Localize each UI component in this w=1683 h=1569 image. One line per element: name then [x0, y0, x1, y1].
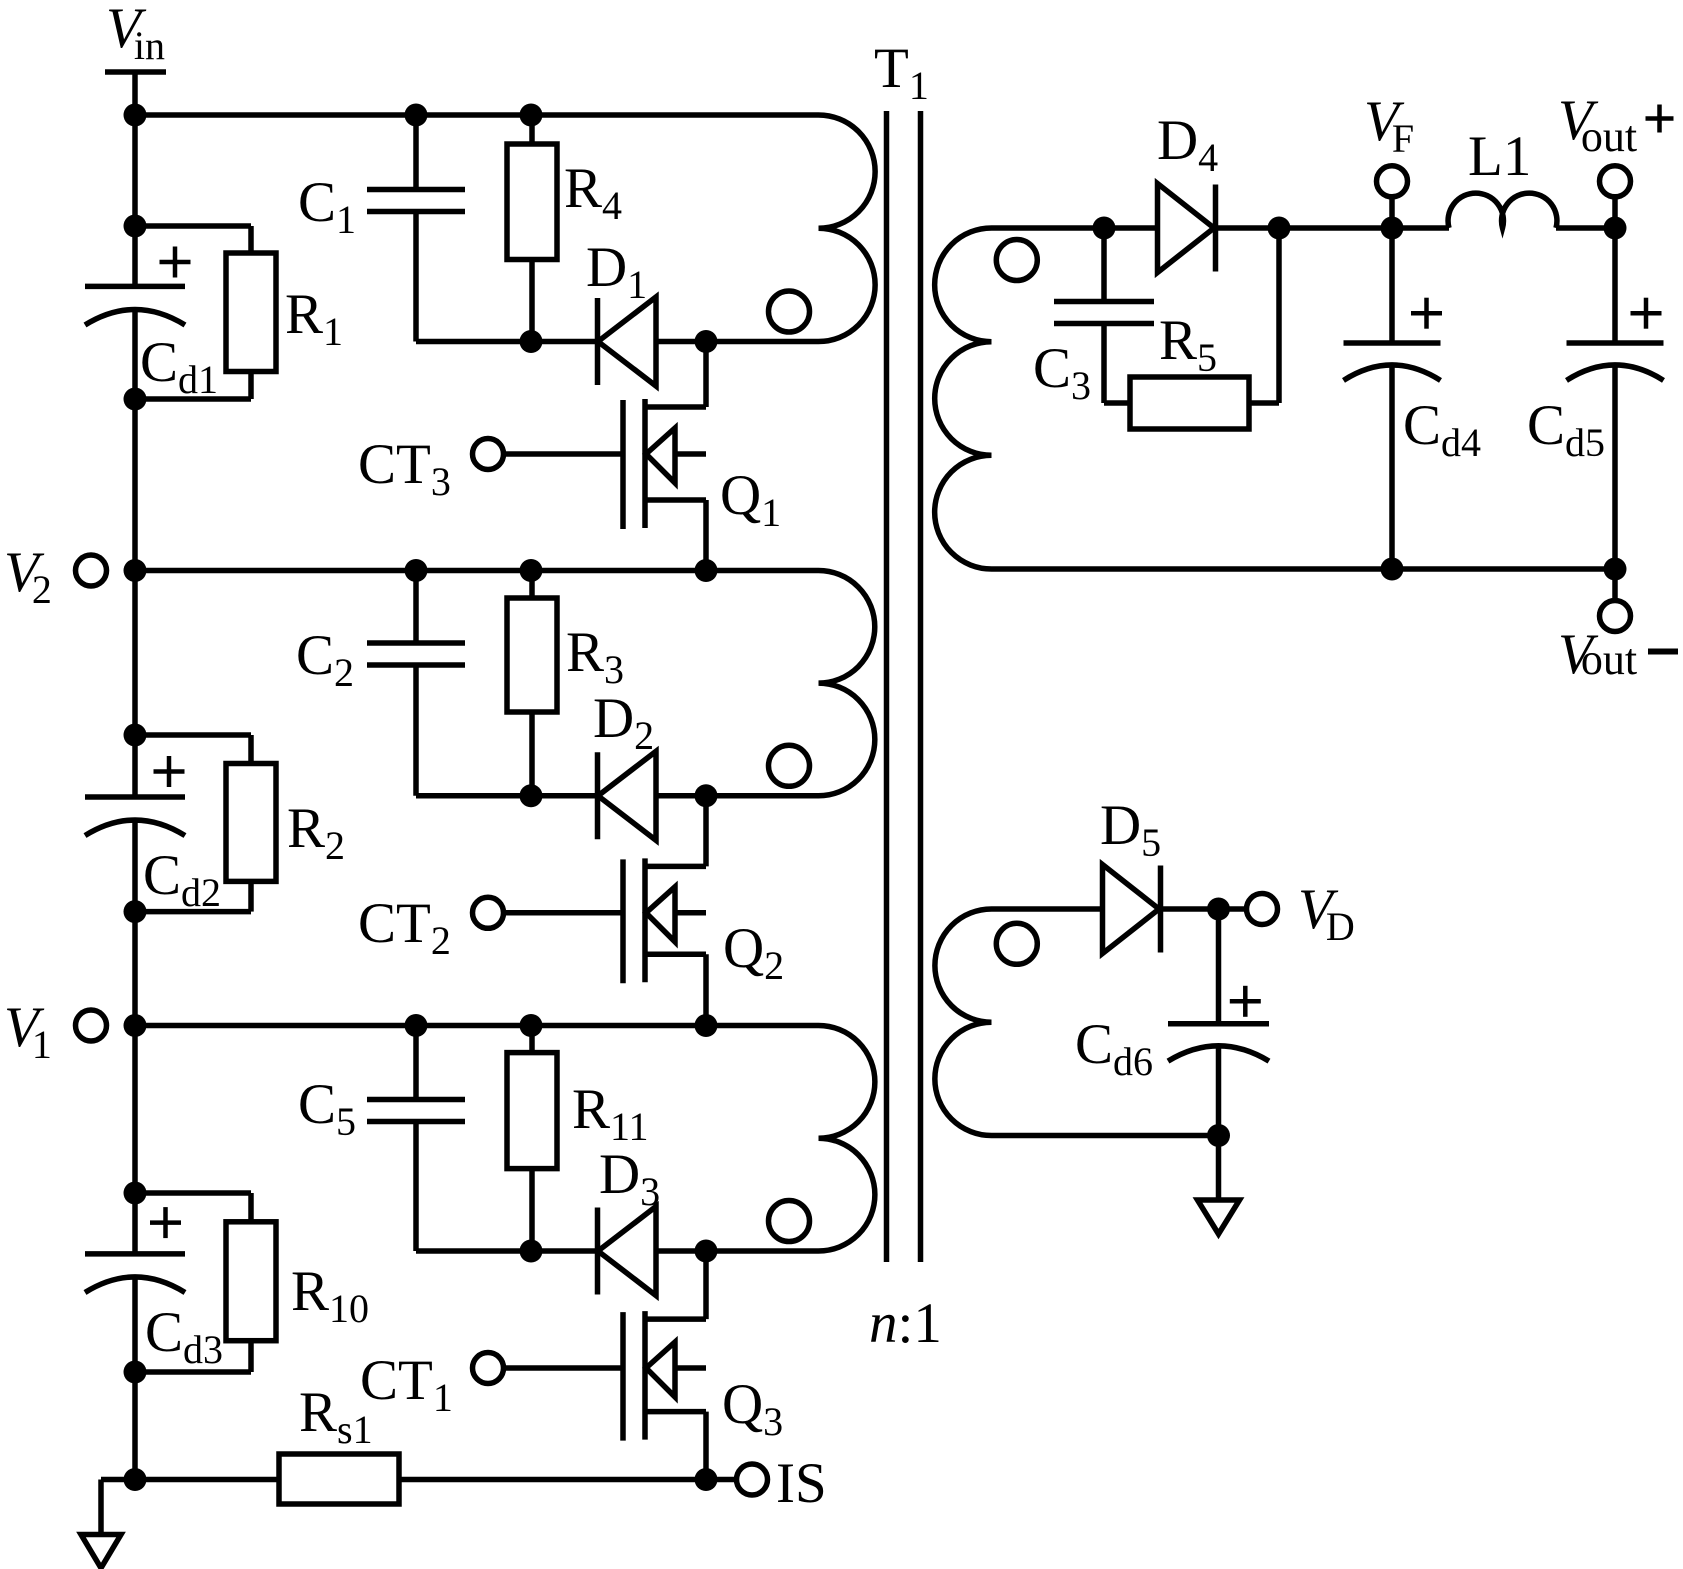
- svg-text:Q1: Q1: [720, 464, 781, 535]
- svg-text:C1: C1: [298, 171, 356, 242]
- diode D5: [1103, 865, 1160, 954]
- svg-text:Cd2: Cd2: [143, 844, 221, 915]
- capacitor C3 bottom lead: [1101, 324, 1107, 404]
- node C3 top junction: [1093, 217, 1116, 240]
- transistor Q3 drain wire: [703, 1251, 709, 1319]
- capacitor C5 plates: [367, 1097, 465, 1103]
- wire secondary top rail: [992, 225, 1393, 231]
- wire R1 bottom to Cd1 bottom node: [248, 372, 254, 400]
- node diode-drain junction cell 1: [695, 330, 718, 353]
- node R11 bottom junction: [520, 1240, 543, 1263]
- svg-text:Vout: Vout: [1558, 89, 1637, 161]
- resistor R2: [226, 764, 276, 882]
- wire Cd3 top node to R10: [135, 1190, 251, 1196]
- svg-text:C2: C2: [296, 624, 354, 695]
- terminal CT3 circle: [473, 439, 504, 470]
- resistor R11: [529, 1026, 535, 1053]
- terminal Vout+ circle: [1600, 166, 1631, 197]
- wire Vout- stub: [1612, 569, 1618, 601]
- transistor Q2 body diode: [675, 910, 706, 916]
- capacitor Cd2 top plate: [85, 794, 185, 800]
- node C1 top junction: [405, 104, 428, 127]
- node Cd3 top junction: [124, 1182, 147, 1205]
- wire primary row 1 and winding P1: [135, 115, 875, 342]
- terminal CT2 circle: [473, 897, 504, 928]
- transistor Q3 source wire: [645, 1409, 706, 1415]
- transistor Q2 source wire: [645, 951, 706, 957]
- svg-text:R3: R3: [566, 621, 624, 692]
- resistor R5: [1130, 377, 1249, 429]
- resistor R3: [529, 571, 535, 599]
- terminal VF circle: [1377, 166, 1408, 197]
- capacitor Cd6 bottom lead: [1216, 1046, 1222, 1136]
- node R11 top junction: [520, 1014, 543, 1037]
- capacitor Cd4 top plate: [1344, 340, 1441, 346]
- capacitor Cd5 curved plate: [1567, 365, 1664, 380]
- diode D1: [595, 298, 601, 385]
- wire left rail Cd3 arc to bottom rail: [132, 1277, 138, 1480]
- svg-text:T1: T1: [874, 37, 929, 108]
- capacitor C3 plates: [1054, 299, 1154, 305]
- node Cd2 bottom junction: [124, 900, 147, 923]
- capacitor C2 plates: [367, 640, 465, 646]
- wire primary row 3 and winding P3: [135, 1026, 875, 1252]
- capacitor Cd2 plus sign: [154, 769, 185, 774]
- transformer T1 primary winding P3 polarity dot: [769, 1201, 810, 1242]
- node Cd6 bottom junction: [1207, 1124, 1230, 1147]
- transformer T1 auxiliary polarity dot: [996, 923, 1037, 964]
- node V2 junction: [124, 559, 147, 582]
- transistor Q1 gate bar: [620, 400, 626, 529]
- capacitor Cd5 bottom lead: [1612, 366, 1618, 569]
- wire R5 right lead: [1249, 400, 1279, 406]
- svg-text:R1: R1: [285, 283, 343, 354]
- node row1 left junction: [124, 104, 147, 127]
- terminal Vout- circle: [1600, 601, 1631, 632]
- node R5 top junction: [1268, 217, 1291, 240]
- svg-text:Cd6: Cd6: [1075, 1013, 1153, 1084]
- capacitor Cd1 plus sign: [160, 260, 191, 265]
- capacitor C snubber C5 lead: [413, 1026, 419, 1100]
- capacitor Cd3 plus sign: [150, 1220, 181, 1225]
- transistor Q3 channel bar: [642, 1311, 648, 1440]
- capacitor Cd5 top plate: [1567, 340, 1664, 346]
- transistor Q1 source wire: [645, 497, 706, 503]
- wire Cd1 top node to R1: [135, 223, 251, 229]
- wire auxiliary top rail: [992, 906, 1247, 912]
- terminal V2 circle: [76, 555, 107, 586]
- node Cd1 top junction: [124, 215, 147, 238]
- node R4 top junction: [520, 104, 543, 127]
- transformer T1 secondary polarity dot: [996, 240, 1037, 281]
- svg-text:L1: L1: [1468, 125, 1531, 188]
- svg-text:R11: R11: [572, 1078, 649, 1149]
- svg-text:VD: VD: [1298, 878, 1355, 949]
- resistor R10: [226, 1222, 276, 1341]
- capacitor Cd4 lead: [1389, 228, 1395, 343]
- transistor Q3 body diode: [675, 1365, 706, 1371]
- transistor Q2 drain wire: [703, 796, 709, 867]
- svg-text:R10: R10: [291, 1260, 369, 1331]
- wire left rail Cd2 arc to Cd3 plate: [132, 820, 138, 1254]
- transistor Q3 gate wire: [504, 1365, 624, 1371]
- transformer T1 auxiliary winding S2: [935, 909, 1219, 1136]
- node IS junction: [695, 1468, 718, 1491]
- svg-text:R2: R2: [287, 797, 345, 868]
- transistor Q3 gate bar: [620, 1312, 626, 1441]
- node diode-drain junction cell 3: [695, 1240, 718, 1263]
- inductor L1: [1448, 193, 1557, 228]
- transformer T1 primary winding P2 polarity dot: [769, 745, 810, 786]
- transistor Q1 channel bar: [642, 399, 648, 528]
- capacitor C snubber C2 lead: [413, 571, 419, 644]
- node diode-drain junction cell 2: [695, 784, 718, 807]
- wire VF stub: [1389, 197, 1395, 228]
- capacitor Cd4 bottom lead: [1389, 366, 1395, 569]
- wire bottom rail right segment: [399, 1477, 706, 1483]
- svg-text:Q3: Q3: [722, 1373, 783, 1444]
- resistor R1: [226, 253, 276, 372]
- svg-text:n:1: n:1: [869, 1292, 942, 1355]
- wire Cd2 top node to R2: [135, 732, 251, 738]
- capacitor Cd6 lead: [1216, 909, 1222, 1024]
- svg-text:V2: V2: [4, 541, 52, 612]
- wire snubber rail cell 2: [416, 793, 706, 799]
- terminal IS circle: [737, 1464, 768, 1495]
- capacitor C3 lead: [1101, 228, 1107, 302]
- capacitor Cd4 plus sign: [1411, 311, 1442, 316]
- transistor Q1 drain wire: [703, 342, 709, 408]
- svg-text:Q2: Q2: [723, 917, 784, 988]
- svg-text:D3: D3: [599, 1143, 660, 1214]
- terminal V1 circle: [76, 1010, 107, 1041]
- svg-text:C5: C5: [298, 1073, 356, 1144]
- node Cd3 bottom junction: [124, 1361, 147, 1384]
- node Cd5 bottom junction: [1604, 558, 1627, 581]
- diode D2: [595, 752, 601, 839]
- node V1 junction: [124, 1014, 147, 1037]
- svg-text:IS: IS: [776, 1452, 827, 1515]
- capacitor C1 plates: [367, 187, 465, 193]
- wire snubber rail cell 1: [416, 339, 706, 345]
- node bottom-left junction: [124, 1468, 147, 1491]
- transistor Q2 gate wire: [504, 910, 624, 916]
- ground auxiliary: [1216, 1136, 1222, 1201]
- capacitor Cd5 lead: [1612, 228, 1618, 343]
- node Cd1 bottom junction: [124, 388, 147, 411]
- diode D3: [595, 1208, 601, 1295]
- ground main: [101, 1477, 135, 1483]
- diode D4: [1158, 184, 1215, 273]
- svg-text:CT1: CT1: [360, 1349, 453, 1420]
- wire VF to L1: [1392, 225, 1449, 231]
- node C5 top junction: [405, 1014, 428, 1037]
- wire left rail Vin-bar to Cd1 plate: [132, 72, 138, 286]
- svg-text:V1: V1: [4, 996, 52, 1067]
- resistor Rs1: [279, 1454, 399, 1504]
- node Vout+ junction: [1604, 217, 1627, 240]
- capacitor Cd6 curved plate: [1168, 1046, 1269, 1061]
- node Q1 source junction: [695, 559, 718, 582]
- svg-text:R5: R5: [1159, 309, 1217, 380]
- node Cd4 bottom junction: [1381, 558, 1404, 581]
- capacitor Cd3 curved plate: [85, 1277, 185, 1293]
- svg-text:Vout: Vout: [1558, 623, 1637, 686]
- capacitor Cd4 curved plate: [1344, 365, 1441, 380]
- svg-text:C3: C3: [1033, 337, 1091, 408]
- node Vin terminal bar: [105, 69, 166, 75]
- terminal VD circle: [1247, 894, 1278, 925]
- wire snubber rail cell 3: [416, 1248, 706, 1254]
- node VD junction: [1207, 898, 1230, 921]
- transistor Q2 gate bar: [620, 859, 626, 983]
- node R3 top junction: [520, 559, 543, 582]
- svg-text:D1: D1: [586, 236, 647, 307]
- wire bottom rail left segment: [135, 1477, 279, 1483]
- svg-text:Vin: Vin: [106, 0, 165, 68]
- terminal CT1 circle: [473, 1353, 504, 1384]
- wire IS stub: [706, 1477, 737, 1483]
- capacitor Cd2 curved plate: [85, 820, 185, 836]
- svg-text:Cd1: Cd1: [140, 331, 218, 402]
- svg-text:R4: R4: [564, 157, 622, 228]
- wire R10 bottom to Cd3 bottom node: [248, 1341, 254, 1372]
- svg-text:CT2: CT2: [358, 892, 451, 963]
- node C2 top junction: [405, 559, 428, 582]
- svg-text:D4: D4: [1157, 109, 1218, 180]
- node R3 bottom junction: [520, 784, 543, 807]
- svg-text:Cd5: Cd5: [1527, 394, 1605, 465]
- svg-text:Cd3: Cd3: [145, 1301, 223, 1372]
- wire Vout+ stub: [1612, 197, 1618, 228]
- svg-text:D2: D2: [593, 687, 654, 758]
- wire primary row 2 and winding P2: [135, 571, 875, 796]
- transformer T1 secondary winding S1: [935, 228, 1615, 569]
- wire L1 to Vout+: [1556, 225, 1615, 231]
- capacitor Cd1 top plate: [85, 284, 185, 290]
- transistor Q1 gate wire: [504, 451, 624, 457]
- svg-text:CT3: CT3: [358, 433, 451, 504]
- transformer T1 core line right: [918, 111, 924, 1262]
- capacitor Cd5 plus sign: [1631, 311, 1662, 316]
- transistor Q2 channel bar: [642, 858, 648, 982]
- capacitor C2 bottom lead: [413, 665, 419, 796]
- capacitor C1 bottom lead: [413, 212, 419, 342]
- svg-text:D5: D5: [1100, 794, 1161, 865]
- transformer T1 core line left: [884, 111, 890, 1262]
- capacitor Cd6 plus sign: [1230, 999, 1261, 1004]
- svg-text:VF: VF: [1364, 90, 1414, 161]
- transformer T1 primary winding P1 polarity dot: [769, 291, 810, 332]
- node VF junction: [1381, 217, 1404, 240]
- resistor R4: [529, 115, 535, 144]
- capacitor Cd1 curved plate: [85, 310, 185, 326]
- node Cd2 top junction: [124, 724, 147, 747]
- node Q2 source junction: [695, 1014, 718, 1037]
- capacitor Cd6 top plate: [1168, 1021, 1269, 1027]
- node R4 bottom junction: [520, 330, 543, 353]
- capacitor C5 bottom lead: [413, 1122, 419, 1252]
- transistor Q1 body diode: [675, 451, 706, 457]
- wire R2 bottom to Cd2 bottom node: [248, 881, 254, 911]
- capacitor Cd3 top plate: [85, 1251, 185, 1257]
- wire left rail Cd1 arc to Cd2 plate: [132, 309, 138, 797]
- svg-text:Cd4: Cd4: [1403, 394, 1481, 465]
- capacitor C snubber C1 lead: [413, 115, 419, 190]
